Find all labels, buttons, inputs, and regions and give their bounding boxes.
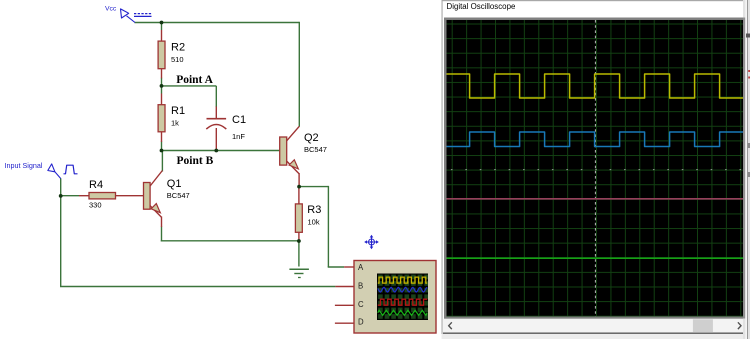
svg-text:Q1: Q1 bbox=[167, 178, 182, 190]
svg-text:1k: 1k bbox=[171, 119, 179, 128]
svg-text:D: D bbox=[358, 318, 364, 327]
svg-text:C: C bbox=[358, 300, 364, 309]
svg-text:BC547: BC547 bbox=[304, 145, 327, 154]
svg-text:Point A: Point A bbox=[176, 74, 213, 86]
svg-text:R4: R4 bbox=[89, 179, 103, 191]
svg-text:Q2: Q2 bbox=[304, 132, 319, 144]
svg-text:R3: R3 bbox=[307, 204, 321, 216]
svg-text:Point B: Point B bbox=[177, 155, 214, 167]
svg-text:BC547: BC547 bbox=[167, 191, 190, 200]
svg-text:R1: R1 bbox=[171, 105, 185, 117]
svg-text:Input Signal: Input Signal bbox=[5, 161, 43, 170]
svg-text:C1: C1 bbox=[232, 114, 246, 126]
svg-text:Vcc: Vcc bbox=[105, 6, 117, 13]
svg-text:510: 510 bbox=[171, 55, 184, 64]
svg-text:Digital Oscilloscope: Digital Oscilloscope bbox=[447, 2, 516, 11]
svg-text:A: A bbox=[358, 263, 364, 272]
svg-text:R2: R2 bbox=[171, 42, 185, 54]
svg-text:330: 330 bbox=[89, 201, 102, 210]
svg-text:1nF: 1nF bbox=[232, 132, 245, 141]
svg-text:B: B bbox=[358, 282, 363, 291]
svg-text:10k: 10k bbox=[308, 218, 320, 227]
